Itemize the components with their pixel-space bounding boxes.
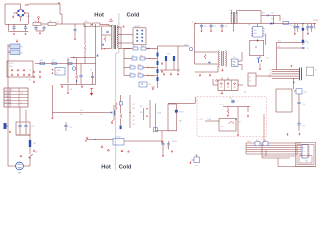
svg-text:Q7: Q7 [267, 58, 269, 60]
svg-text:Hot: Hot [101, 164, 111, 170]
svg-text:C70: C70 [303, 104, 306, 106]
svg-text:L201: L201 [130, 72, 133, 74]
svg-text:R201: R201 [138, 64, 141, 66]
svg-text:TL431: TL431 [207, 119, 211, 121]
svg-text:D8: D8 [271, 19, 273, 21]
svg-text:Q2: Q2 [29, 75, 31, 77]
svg-text:C61: C61 [305, 29, 308, 31]
svg-text:5V: 5V [307, 48, 309, 50]
svg-text:PC817: PC817 [179, 111, 184, 113]
svg-text:R31: R31 [140, 106, 143, 108]
svg-text:1N4148: 1N4148 [220, 104, 225, 106]
svg-text:R12: R12 [67, 60, 70, 62]
svg-text:PC817: PC817 [116, 137, 121, 139]
svg-text:SW 12V: SW 12V [5, 93, 12, 95]
svg-text:TOP: TOP [254, 30, 257, 32]
svg-text:R32: R32 [140, 112, 143, 114]
svg-text:L201: L201 [130, 64, 133, 66]
svg-text:IC3: IC3 [233, 57, 236, 59]
svg-text:TH1: TH1 [33, 143, 36, 145]
svg-text:PSON: PSON [247, 141, 251, 143]
svg-text:U2: U2 [248, 25, 250, 27]
svg-text:C33: C33 [31, 126, 34, 128]
svg-text:CY: CY [57, 22, 59, 24]
svg-text:1N4148: 1N4148 [172, 141, 177, 143]
svg-text:R34: R34 [133, 116, 136, 118]
svg-text:C40: C40 [204, 26, 207, 28]
svg-text:Q1: Q1 [29, 70, 31, 72]
svg-text:R11: R11 [52, 60, 55, 62]
svg-text:Cold: Cold [127, 13, 140, 19]
svg-text:LF1: LF1 [34, 21, 37, 23]
svg-text:K1: K1 [21, 47, 23, 49]
svg-text:2.5V: 2.5V [200, 119, 203, 121]
svg-text:5V: 5V [21, 103, 23, 105]
svg-text:R22: R22 [80, 114, 83, 116]
svg-text:GP: GP [70, 89, 72, 91]
svg-text:R62: R62 [264, 140, 267, 142]
svg-text:+12: +12 [269, 70, 272, 72]
svg-text:L3: L3 [282, 18, 284, 20]
svg-text:PS: PS [196, 166, 198, 168]
svg-text:CN2: CN2 [304, 92, 307, 94]
svg-text:COM 3V: COM 3V [5, 99, 12, 101]
svg-text:PS GND: PS GND [5, 103, 12, 105]
svg-text:C42: C42 [225, 26, 228, 28]
svg-text:SBL2040: SBL2040 [134, 26, 140, 28]
svg-text:SW1: SW1 [35, 152, 38, 154]
svg-text:R50: R50 [262, 12, 265, 14]
svg-text:R10: R10 [40, 60, 43, 62]
svg-text:VCC GND: VCC GND [5, 90, 14, 92]
svg-text:C50: C50 [271, 12, 274, 14]
svg-text:12V: 12V [307, 42, 310, 44]
svg-text:C20: C20 [167, 54, 170, 56]
svg-text:Cold: Cold [119, 164, 132, 170]
svg-text:G1: G1 [249, 77, 251, 79]
svg-text:+3.3: +3.3 [269, 74, 272, 76]
svg-text:T3: T3 [230, 10, 232, 12]
svg-text:C31: C31 [133, 120, 136, 122]
svg-text:SB540: SB540 [151, 68, 155, 70]
svg-text:C71: C71 [303, 126, 306, 128]
svg-text:SB540: SB540 [152, 59, 156, 61]
svg-text:12V: 12V [21, 93, 24, 95]
svg-text:Hot: Hot [94, 13, 104, 19]
svg-text:0.5W: 0.5W [9, 66, 13, 68]
svg-text:D20: D20 [133, 124, 136, 126]
svg-text:GND 5V: GND 5V [5, 96, 12, 98]
svg-text:C41: C41 [213, 26, 216, 28]
svg-text:GND: GND [268, 76, 271, 78]
svg-text:SB540: SB540 [151, 76, 155, 78]
svg-text:R9: R9 [29, 80, 31, 82]
svg-text:R201: R201 [138, 72, 141, 74]
svg-text:5VSB: 5VSB [313, 20, 319, 22]
svg-text:+5V: +5V [80, 110, 83, 112]
svg-text:Q10: Q10 [230, 98, 233, 100]
svg-text:L201: L201 [133, 45, 136, 47]
svg-text:G2: G2 [249, 81, 251, 83]
svg-text:TL431: TL431 [157, 113, 161, 115]
svg-text:C30: C30 [133, 104, 136, 106]
svg-text:LF2: LF2 [49, 21, 52, 23]
svg-text:GBU4: GBU4 [27, 16, 31, 18]
svg-text:R35: R35 [179, 121, 182, 123]
svg-text:R201: R201 [140, 55, 143, 57]
svg-text:R61: R61 [256, 140, 259, 142]
svg-text:D12: D12 [278, 40, 281, 42]
svg-text:C7: C7 [90, 70, 92, 72]
svg-text:C45: C45 [239, 122, 242, 124]
svg-text:D14: D14 [149, 84, 152, 86]
svg-text:CR68: CR68 [57, 70, 61, 72]
svg-text:L201: L201 [132, 55, 135, 57]
svg-text:K2: K2 [21, 53, 23, 55]
svg-text:2005: 2005 [303, 151, 306, 153]
svg-text:R201: R201 [141, 45, 144, 47]
svg-text:C26: C26 [166, 147, 169, 149]
svg-text:SB540: SB540 [152, 49, 156, 51]
svg-text:03: 03 [57, 73, 59, 75]
svg-text:D5: D5 [278, 46, 280, 48]
svg-text:245Y: 245Y [254, 33, 257, 35]
svg-text:5202: 5202 [305, 161, 308, 163]
svg-text:C23: C23 [69, 127, 72, 129]
svg-text:5V: 5V [192, 21, 194, 23]
svg-text:R33: R33 [133, 108, 136, 110]
svg-text:+5: +5 [270, 72, 272, 74]
svg-text:P1: P1 [315, 70, 317, 72]
svg-text:C63: C63 [314, 27, 317, 29]
svg-text:C60: C60 [289, 25, 292, 27]
